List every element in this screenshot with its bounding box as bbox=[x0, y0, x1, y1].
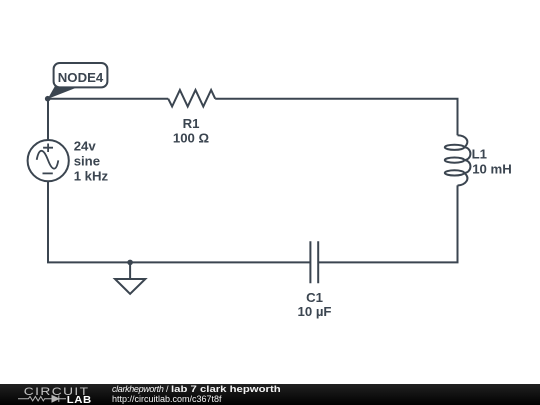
footer bar bbox=[0, 384, 540, 405]
voltage source V1 circle bbox=[28, 140, 69, 181]
ground stub wire bbox=[129, 262, 131, 279]
wire source to node bbox=[47, 99, 49, 140]
capacitor C1 plates bbox=[310, 241, 318, 283]
svg-text:1 kHz: 1 kHz bbox=[74, 169, 109, 184]
resistor R1 bbox=[168, 90, 215, 107]
wire C1 to source (bottom left corner) bbox=[48, 181, 310, 262]
svg-text:NODE4: NODE4 bbox=[58, 70, 104, 85]
voltage source V1 sine wave bbox=[37, 151, 59, 169]
NODE4 flag tail bbox=[48, 86, 77, 99]
inductor L1 coil bbox=[445, 135, 471, 185]
NODE4 flag box bbox=[54, 63, 108, 87]
svg-text:R1: R1 bbox=[183, 116, 200, 131]
logo wire with resistor and diode bbox=[18, 396, 66, 402]
ground junction dot bbox=[127, 260, 133, 266]
wire L1 to C1 (bottom right corner) bbox=[318, 185, 457, 262]
voltage source V1 minus sign bbox=[43, 172, 53, 174]
wire node to R1 bbox=[48, 98, 168, 100]
node dot bbox=[45, 96, 51, 102]
CircuitLab logo bbox=[0, 384, 100, 405]
svg-text:LAB: LAB bbox=[67, 394, 92, 405]
svg-text:C1: C1 bbox=[306, 290, 323, 305]
footer title text bbox=[112, 384, 258, 404]
svg-text:sine: sine bbox=[74, 154, 100, 169]
svg-text:10 mH: 10 mH bbox=[472, 162, 512, 177]
wire R1 to L1 (top right corner) bbox=[215, 99, 457, 136]
voltage source V1 plus sign bbox=[43, 144, 53, 153]
ground triangle bbox=[115, 279, 145, 294]
svg-text:100 Ω: 100 Ω bbox=[173, 131, 210, 146]
svg-text:L1: L1 bbox=[472, 147, 487, 162]
svg-text:24v: 24v bbox=[74, 139, 97, 154]
svg-text:10 µF: 10 µF bbox=[298, 304, 332, 319]
